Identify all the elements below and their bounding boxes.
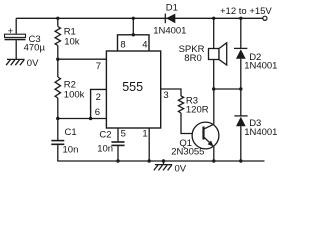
- svg-text:1N4001: 1N4001: [153, 26, 186, 37]
- 555 left bump pins 2 6: [91, 89, 107, 118]
- resistor R2 100k: [55, 77, 85, 100]
- wire speaker/D2 cross connector: [214, 88, 241, 90]
- transistor Q1 2N3055: [171, 122, 219, 157]
- svg-text:6: 6: [95, 107, 100, 118]
- node junction dot left rail / top rail: [56, 17, 59, 20]
- wire bottom ground rail: [57, 160, 264, 162]
- wire pin 7 to 555: [58, 58, 107, 60]
- pin 1 wire and label: [148, 128, 150, 161]
- diode D2 1N4001: [234, 18, 277, 89]
- ground chassis symbol at C3, 0V: [6, 58, 39, 69]
- speaker SPKR 8R0: [179, 18, 227, 89]
- svg-text:10n: 10n: [97, 144, 113, 155]
- svg-text:100k: 100k: [64, 89, 85, 100]
- svg-text:8: 8: [120, 40, 125, 51]
- svg-text:C1: C1: [65, 127, 77, 138]
- svg-text:4: 4: [142, 40, 147, 51]
- svg-text:0V: 0V: [27, 58, 39, 69]
- node junction dot emitter/ground rail: [212, 159, 215, 162]
- wire left rail top (to R1): [57, 18, 59, 26]
- capacitor C3 470u electrolytic: [5, 18, 46, 59]
- svg-text:0V: 0V: [175, 164, 187, 175]
- svg-text:1N4001: 1N4001: [244, 127, 277, 138]
- svg-text:2N3055: 2N3055: [171, 147, 204, 158]
- svg-text:7: 7: [96, 61, 101, 72]
- diode D1 1N4001: [153, 3, 186, 37]
- svg-text:5: 5: [121, 129, 126, 140]
- node supply terminal +12 to +15V: [263, 16, 267, 20]
- op-amp U1 555 timer box: [106, 51, 160, 128]
- node junction dot R2/C1/pin2-6: [56, 117, 59, 120]
- node junction dot pins 8-4: [132, 33, 135, 36]
- wire top supply rail: [16, 17, 263, 19]
- capacitor C1 10n: [51, 119, 78, 162]
- wire Q1 emitter down: [213, 146, 215, 162]
- resistor R3 120R: [178, 95, 208, 115]
- node junction dot D3/ground rail: [239, 159, 242, 162]
- node junction dot D2 branch / top rail: [239, 17, 242, 20]
- wire pins 2-6 to junction: [58, 118, 107, 120]
- ground chassis symbol bottom, 0V: [154, 159, 187, 174]
- wire R3 to Q1 base: [181, 113, 203, 134]
- svg-text:+12 to +15V: +12 to +15V: [220, 6, 272, 17]
- svg-text:2: 2: [96, 92, 101, 103]
- diode D3 1N4001: [234, 89, 277, 161]
- node junction dot collector/speaker: [212, 87, 215, 90]
- pin 3 wire and label: [161, 89, 181, 101]
- svg-text:10n: 10n: [63, 144, 79, 155]
- node junction dot 555 pins 8-4 / top rail: [132, 17, 135, 20]
- svg-text:120R: 120R: [186, 105, 209, 116]
- wire Q1 collector up: [213, 89, 215, 124]
- node junction dot pin1/ground rail: [148, 159, 151, 162]
- resistor R1 10k: [55, 26, 80, 47]
- svg-text:D1: D1: [166, 3, 178, 14]
- svg-text:8R0: 8R0: [184, 53, 201, 64]
- svg-text:555: 555: [122, 80, 143, 94]
- svg-text:3: 3: [163, 90, 168, 101]
- svg-text:C2: C2: [99, 130, 111, 141]
- svg-text:1: 1: [142, 128, 147, 139]
- node junction dot pin7 tap: [56, 58, 59, 61]
- capacitor C2 10n: [97, 130, 124, 162]
- 555 top bump pins 8 4: [118, 35, 150, 51]
- wire pins 8-4 to top rail: [132, 18, 134, 35]
- node junction dot D2/D3: [239, 87, 242, 90]
- node junction dot at pin 2-6 box corner: [89, 117, 92, 120]
- node junction dot C2/ground rail: [116, 159, 119, 162]
- wire R2 to C1 junction: [57, 98, 59, 119]
- wire R1 to R2: [57, 46, 59, 78]
- svg-text:10k: 10k: [64, 36, 80, 47]
- svg-text:1N4001: 1N4001: [244, 61, 277, 72]
- node junction dot speaker branch / top rail: [212, 17, 215, 20]
- svg-text:470µ: 470µ: [24, 42, 46, 53]
- pin 5 wire and label: [117, 128, 119, 141]
